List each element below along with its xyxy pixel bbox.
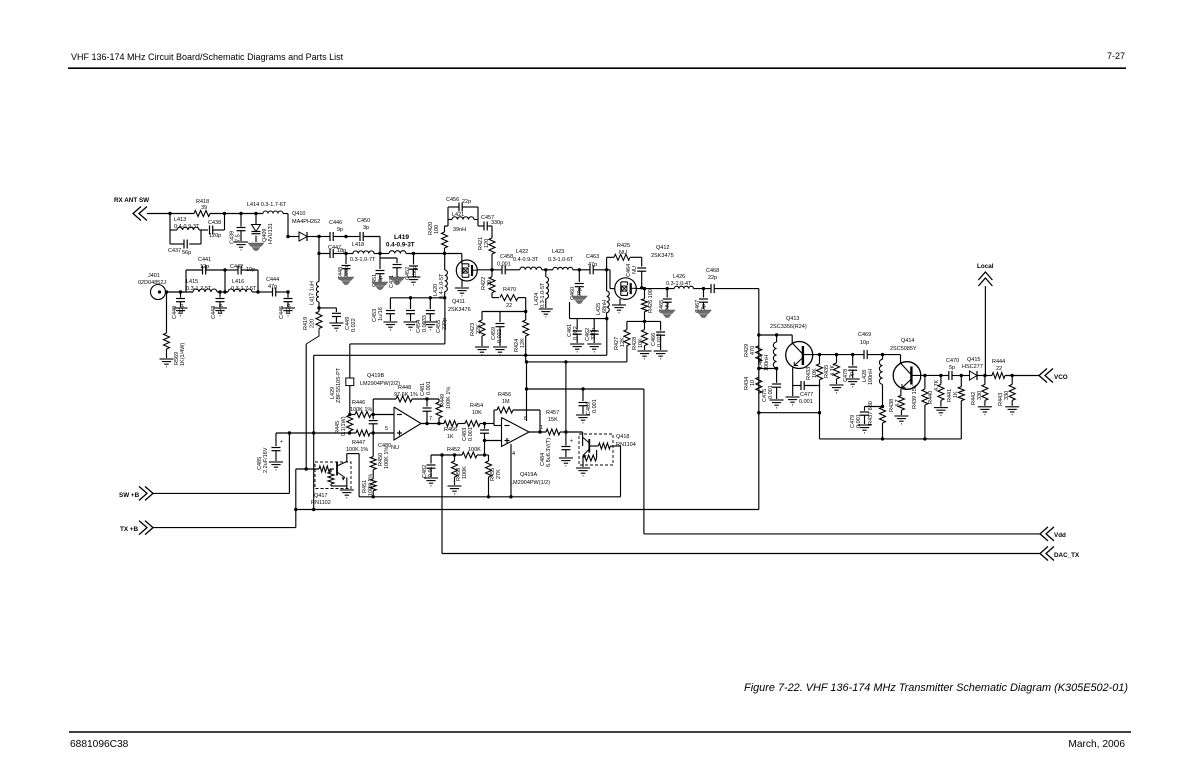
ground under Q411 <box>455 288 469 296</box>
ground under R428 <box>638 351 652 359</box>
capacitor C445 <box>279 292 293 319</box>
junction after C447 <box>344 252 347 255</box>
wire op1 plus input <box>373 432 394 434</box>
svg-text:0.4-0.9-3T: 0.4-0.9-3T <box>174 224 200 230</box>
wire upper-lower rail link at x380 <box>379 237 381 254</box>
opamp Q419B label <box>360 373 400 387</box>
svg-text:C446: C446 <box>329 220 342 226</box>
ground under C465 <box>659 310 675 318</box>
capacitor C463 <box>586 254 610 274</box>
capacitor C460 <box>570 270 584 300</box>
ground under C484 <box>559 458 573 466</box>
ground under R423 <box>475 347 489 355</box>
footer date <box>1068 739 1125 750</box>
junction at L424 tap <box>544 268 547 271</box>
svg-text:2SK3475: 2SK3475 <box>651 253 674 259</box>
svg-text:R447: R447 <box>352 440 365 446</box>
resistor R433 <box>806 364 823 380</box>
capacitor C453 <box>372 298 395 322</box>
connector J401 <box>138 273 166 300</box>
svg-text:RN1102: RN1102 <box>311 500 331 506</box>
capacitor C441 <box>198 257 211 275</box>
capacitor C485 <box>257 433 283 473</box>
junction L428 bottom <box>881 405 884 408</box>
svg-text:R419: R419 <box>303 317 309 330</box>
svg-text:10p: 10p <box>860 340 869 346</box>
svg-text:R470: R470 <box>503 287 516 293</box>
svg-text:0.001: 0.001 <box>497 262 511 268</box>
junction R420 tap <box>443 252 446 255</box>
ground under C448 <box>338 277 354 285</box>
junction bus y412 <box>757 411 760 414</box>
svg-text:R452: R452 <box>447 447 460 453</box>
wire left bus x313 down <box>313 355 315 509</box>
ground under C449 <box>329 323 343 331</box>
resistor R434 <box>744 377 762 393</box>
junction rail y389 at x526 <box>525 387 528 390</box>
junction bottom rail pin4 <box>509 495 512 498</box>
capacitor C478 <box>843 355 857 382</box>
svg-text:+: + <box>570 439 573 445</box>
junction at x380 lower rail <box>378 252 381 255</box>
header rule <box>68 67 1126 69</box>
junction at C443 tap <box>218 290 221 293</box>
resistor R429 <box>744 344 762 362</box>
svg-text:VCO: VCO <box>1054 374 1068 381</box>
capacitor C475 <box>762 369 781 403</box>
inductor L430 <box>758 335 777 371</box>
svg-text:L415: L415 <box>186 279 198 285</box>
junction on RX rail at C439 tap <box>239 212 242 215</box>
junction C454 tap <box>409 296 412 299</box>
svg-text:Q412: Q412 <box>656 245 669 251</box>
svg-text:C456: C456 <box>446 197 459 203</box>
svg-text:0.4-0.9-3T: 0.4-0.9-3T <box>513 257 539 263</box>
svg-text:5: 5 <box>385 426 388 432</box>
junction drain at C467 <box>702 287 705 290</box>
wire rail y412 <box>759 412 820 414</box>
svg-text:12K: 12K <box>620 337 626 347</box>
resistor R443 <box>998 376 1015 407</box>
svg-text:ZBFS5105-PT: ZBFS5105-PT <box>336 367 342 403</box>
resistor R569 <box>164 292 187 366</box>
ground under C454 <box>404 322 418 330</box>
svg-text:C441: C441 <box>198 257 211 263</box>
svg-text:Figure 7-22. VHF 136-174 MHz T: Figure 7-22. VHF 136-174 MHz Transmitter… <box>744 682 1128 694</box>
svg-text:330: 330 <box>1004 391 1010 400</box>
svg-text:220: 220 <box>310 319 316 328</box>
wire Q414 output rail <box>941 375 1040 377</box>
svg-text:L423: L423 <box>552 249 564 255</box>
svg-text:22K: 22K <box>476 324 482 334</box>
junction C445 node <box>286 235 289 294</box>
svg-text:0.3-1.0-7T: 0.3-1.0-7T <box>350 257 376 263</box>
junction R452 rail DAC tap <box>440 453 443 456</box>
junction rail y361 at C484 <box>564 360 567 363</box>
svg-text:L422: L422 <box>516 249 528 255</box>
wire Q413 emitter <box>793 358 803 397</box>
svg-text:March, 2006: March, 2006 <box>1068 739 1125 750</box>
inductor L428 <box>862 359 883 385</box>
node TX +B label <box>120 526 138 533</box>
svg-text:0.022: 0.022 <box>657 333 663 347</box>
svg-text:R426 100: R426 100 <box>648 289 654 313</box>
wire L428 column <box>882 355 884 407</box>
ground under C479 <box>858 425 872 433</box>
capacitor C437 <box>168 240 191 257</box>
junction R455 bottom <box>487 495 490 498</box>
wire RX rail to Q410 node <box>287 214 289 237</box>
svg-text:R444: R444 <box>992 359 1005 365</box>
svg-text:C438: C438 <box>208 220 221 226</box>
svg-text:22: 22 <box>506 303 512 309</box>
resistor R419 <box>303 308 322 344</box>
wire R425 tap up <box>606 257 608 270</box>
junction R445 bottom <box>348 431 351 434</box>
svg-text:100K 1%: 100K 1% <box>368 474 374 496</box>
ground under C466 <box>654 351 668 359</box>
svg-text:TX +B: TX +B <box>120 526 138 533</box>
junction orail local <box>983 374 986 377</box>
ground under C453 <box>383 322 397 330</box>
resistor R428 <box>632 321 648 350</box>
svg-text:0.4-0.9-3T: 0.4-0.9-3T <box>386 242 415 249</box>
svg-text:NU: NU <box>391 445 399 451</box>
ground under C455 <box>423 322 437 330</box>
wire Q414 base entry <box>901 355 912 375</box>
svg-text:C444: C444 <box>266 277 279 283</box>
junction J401 rail C440 tap <box>179 290 182 293</box>
ground under Q413 emitter <box>786 397 800 405</box>
node DAC_TX label <box>1054 552 1080 559</box>
junction after C446 <box>344 235 347 238</box>
wire rail y439 <box>820 438 962 440</box>
svg-text:220p: 220p <box>344 266 350 278</box>
junction on RX rail at Q409 tap <box>254 212 257 215</box>
node RX ANT SW label <box>114 197 149 204</box>
capacitor C452 <box>405 254 418 281</box>
wire Q414 output <box>911 374 941 376</box>
svg-text:L414 0.3-1.7-6T: L414 0.3-1.7-6T <box>247 202 287 208</box>
junction crail C478 <box>851 353 884 356</box>
svg-text:1K(1/4W): 1K(1/4W) <box>180 343 186 366</box>
svg-text:R446: R446 <box>352 400 365 406</box>
inductor L415 <box>186 279 217 292</box>
junction rail y509 x313 <box>312 508 315 511</box>
resistor R437 <box>868 401 886 439</box>
ground under C445 <box>281 308 295 316</box>
junction TXB rail y509 <box>294 508 297 511</box>
capacitor C446 <box>319 220 346 241</box>
resistor R447 <box>346 430 373 453</box>
capacitor C438 <box>208 220 225 239</box>
pin 8 label <box>524 416 527 422</box>
wire C447 lower rail <box>319 237 346 254</box>
resistor R418 <box>194 199 210 217</box>
capacitor C459 <box>491 312 505 347</box>
wire rail y361 <box>526 361 627 363</box>
svg-text:10K: 10K <box>638 338 644 348</box>
svg-text:Q418: Q418 <box>616 434 629 440</box>
svg-text:100K 1%: 100K 1% <box>346 447 368 453</box>
transistor Q417 RN1102 <box>311 462 351 507</box>
transistor Q411 <box>448 260 477 313</box>
svg-text:27K: 27K <box>496 469 502 479</box>
svg-text:0.3-1.7-5T: 0.3-1.7-5T <box>186 286 212 292</box>
capacitor C470 <box>946 358 959 380</box>
ground under C489 <box>576 415 590 423</box>
svg-text:C468: C468 <box>706 268 719 274</box>
capacitor C444 <box>258 277 288 297</box>
junction R452 rail right <box>483 453 486 456</box>
ground under C451 <box>372 282 388 290</box>
svg-text:47p: 47p <box>268 284 277 290</box>
svg-text:L417 1uH: L417 1uH <box>310 281 316 305</box>
junction orail R440 <box>939 374 942 377</box>
svg-text:39nH: 39nH <box>453 227 466 233</box>
wire op1 minus input <box>373 414 394 416</box>
junction C480 bottom <box>372 431 375 434</box>
svg-text:L421: L421 <box>452 212 464 218</box>
junction drain at R426 <box>643 287 646 290</box>
svg-text:SW +B: SW +B <box>119 492 140 499</box>
svg-text:100K 1%: 100K 1% <box>446 387 452 409</box>
svg-text:7-27: 7-27 <box>1107 51 1125 61</box>
junction rail y439 R439 <box>923 437 926 440</box>
wire Local feed <box>984 286 986 376</box>
svg-text:9p: 9p <box>337 227 343 233</box>
inductor L417 <box>310 254 320 308</box>
svg-text:22: 22 <box>996 366 1002 372</box>
capacitor C465 <box>659 289 672 313</box>
junction C452 tap <box>412 252 415 255</box>
svg-text:2.2uF/16V: 2.2uF/16V <box>263 447 269 473</box>
svg-text:0.001: 0.001 <box>799 399 813 405</box>
svg-text:120: 120 <box>484 239 490 248</box>
wire rail y509 <box>296 509 759 511</box>
svg-text:0.01: 0.01 <box>428 466 434 477</box>
svg-text:22p: 22p <box>708 275 717 281</box>
wire base tie y335 <box>759 334 792 336</box>
wire Q412 drain rail <box>636 288 759 290</box>
capacitor C457 <box>481 215 503 231</box>
ground under Q409 <box>248 243 264 251</box>
pin 4 label <box>512 451 515 457</box>
resistor R420 <box>428 222 448 254</box>
svg-text:C442: C442 <box>230 264 243 270</box>
wire C441 bypass rail <box>186 270 225 292</box>
svg-text:C463: C463 <box>586 254 599 260</box>
svg-text:DAC_TX: DAC_TX <box>1054 552 1080 559</box>
junction rail433 SWB tap <box>288 431 291 434</box>
node Local label <box>977 263 994 270</box>
svg-text:RN1104: RN1104 <box>616 442 636 448</box>
wire DAC_TX <box>442 455 1040 554</box>
svg-text:330p: 330p <box>591 328 597 340</box>
inductor L421 <box>448 212 478 233</box>
inductor L418 <box>346 242 389 263</box>
svg-text:R448: R448 <box>398 385 411 391</box>
junction output at R456 <box>538 430 541 433</box>
resistor R455 <box>485 455 503 497</box>
transistor Q413 <box>770 316 813 369</box>
svg-text:L426: L426 <box>673 274 685 280</box>
svg-text:39: 39 <box>487 280 493 286</box>
wire bias rail R423 <box>482 311 526 313</box>
opamp Q419A label <box>510 472 550 486</box>
capacitor C471 <box>380 258 402 288</box>
resistor R456 <box>497 392 513 413</box>
svg-text:0.3-1.0-6T: 0.3-1.0-6T <box>548 257 574 263</box>
svg-text:0.4-1.0-5T: 0.4-1.0-5T <box>439 273 445 299</box>
svg-text:330p: 330p <box>491 220 503 226</box>
resistor R448 <box>394 385 418 402</box>
header page number <box>1107 51 1125 61</box>
inductor L419 <box>386 234 445 254</box>
wire Q414 emitter <box>901 379 912 395</box>
wire SW+B <box>153 433 289 493</box>
junction orail R441 <box>960 374 963 377</box>
op-amp Q419A <box>502 418 530 447</box>
junction at C463 out <box>605 268 608 271</box>
ground under Q417 <box>340 490 354 498</box>
junction feedback at C481 <box>425 397 428 400</box>
wire gate lead Q411 <box>445 254 462 265</box>
inductor L420 <box>433 254 447 300</box>
svg-text:02D04852J: 02D04852J <box>138 280 166 286</box>
svg-text:NU: NU <box>665 302 671 310</box>
svg-text:0.3-1.0-5T: 0.3-1.0-5T <box>540 282 546 308</box>
wire op2 minus input <box>485 424 502 426</box>
inductor L423 <box>548 249 590 270</box>
wire R470 to bias rail <box>525 298 527 312</box>
junction crail R433 <box>818 353 821 356</box>
node Vdd label <box>1054 532 1066 539</box>
svg-text:LM2904PW(1/2): LM2904PW(1/2) <box>510 480 550 486</box>
ground under C471 <box>389 277 405 285</box>
svg-text:100K: 100K <box>462 466 468 479</box>
resistor R442 <box>971 376 988 406</box>
capacitor C454 <box>406 298 428 333</box>
footer rule <box>69 731 1131 733</box>
junction C455 tap <box>429 296 432 299</box>
capacitor C481 <box>420 381 432 423</box>
svg-text:97.6K 1%: 97.6K 1% <box>394 392 418 398</box>
wire op1 output rail <box>421 423 444 425</box>
svg-text:0.022: 0.022 <box>497 329 503 343</box>
capacitor C455 <box>426 298 448 333</box>
svg-text:+: + <box>280 439 283 445</box>
op-amp Q419B <box>394 407 421 440</box>
port RX ANT SW chevron <box>133 207 147 221</box>
resistor R422 <box>481 270 495 298</box>
svg-text:3p: 3p <box>363 225 369 231</box>
wire C485 rail y433 <box>276 432 373 434</box>
port VCO chevron <box>1039 369 1053 383</box>
svg-text:7.5: 7.5 <box>236 234 242 242</box>
svg-text:4.7K: 4.7K <box>830 364 836 376</box>
ground under C440 <box>174 308 188 316</box>
capacitor C483 <box>462 424 489 442</box>
node SW +B label <box>119 492 140 499</box>
transistor Q412 <box>615 245 674 299</box>
resistor R451 <box>362 470 376 497</box>
junction R452 rail R453 tap <box>453 453 456 456</box>
junction at C484 tap <box>564 430 567 433</box>
junction orail R443 <box>1011 374 1014 377</box>
wire bead to R445 node <box>349 386 351 415</box>
capacitor C469 <box>858 332 871 359</box>
resistor R424 <box>514 312 529 356</box>
ground under C478 <box>846 379 860 387</box>
inductor L426 <box>666 274 694 289</box>
svg-text:Q413: Q413 <box>786 316 799 322</box>
wire op2 output <box>529 431 546 433</box>
footer part number <box>70 739 129 750</box>
capacitor C477 <box>793 381 820 405</box>
wire R456 feedback <box>494 410 540 432</box>
svg-text:0.001: 0.001 <box>768 385 774 399</box>
svg-text:56p: 56p <box>182 250 191 256</box>
resistor R453 <box>452 455 469 485</box>
resistor R446 <box>350 400 373 418</box>
svg-text:68nH: 68nH <box>602 300 608 313</box>
capacitor C462 <box>585 319 599 343</box>
svg-text:C458: C458 <box>500 254 513 260</box>
junction rail y389 at C489 <box>581 387 584 390</box>
svg-text:L413: L413 <box>174 217 186 223</box>
wire RX input rail <box>147 213 288 215</box>
svg-text:12K: 12K <box>520 338 526 348</box>
wire feedback rail y399 <box>373 399 439 415</box>
resistor R426 <box>642 289 655 322</box>
junction bias rail <box>524 310 527 313</box>
capacitor C489 <box>579 389 599 415</box>
pin 5 label <box>385 426 388 432</box>
svg-text:MA4PH262: MA4PH262 <box>292 219 320 225</box>
svg-text:7: 7 <box>429 416 432 422</box>
svg-text:RX ANT SW: RX ANT SW <box>114 197 149 204</box>
figure caption <box>744 682 1128 694</box>
capacitor C461 <box>567 319 582 343</box>
junction bus y335 <box>757 333 760 336</box>
ground under C482 <box>424 478 438 486</box>
svg-text:10K: 10K <box>472 410 482 416</box>
wire TX+B <box>153 469 319 528</box>
svg-text:R425: R425 <box>617 243 630 249</box>
capacitor C443 <box>211 292 225 319</box>
port Local chevron <box>978 272 992 286</box>
svg-text:10p: 10p <box>246 267 255 273</box>
svg-text:100K 1%: 100K 1% <box>350 407 372 413</box>
svg-text:VHF 136-174 MHz Circuit Board/: VHF 136-174 MHz Circuit Board/Schematic … <box>71 52 344 62</box>
wire Vdd rail y389 <box>527 388 644 390</box>
pin 1 label <box>540 425 543 431</box>
svg-text:3p: 3p <box>849 372 855 378</box>
transistor Q418 RN1104 <box>566 432 636 497</box>
junction on RX rail at L413 tap <box>168 212 171 215</box>
svg-text:100K 1%: 100K 1% <box>384 447 390 469</box>
junction L417 bottom <box>317 306 320 309</box>
inductor L414 <box>247 202 287 214</box>
junction orail R439 <box>923 374 926 377</box>
resistor R440 <box>928 376 944 407</box>
svg-text:HSC277: HSC277 <box>962 364 983 370</box>
svg-text:Q415: Q415 <box>967 357 980 363</box>
junction supply rail at x525 <box>524 354 527 357</box>
pin 7 label <box>429 416 432 422</box>
ground under C439 <box>234 242 248 250</box>
